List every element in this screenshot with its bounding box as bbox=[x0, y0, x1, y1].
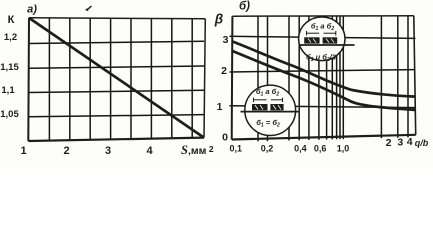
svg-text:0,1: 0,1 bbox=[229, 144, 242, 154]
lower inset hatched plate section left (thickness б1) bbox=[252, 104, 268, 110]
lower inset dimension line right segment bbox=[271, 99, 283, 101]
hatch stroke bbox=[255, 105, 258, 110]
svg-text:1,0: 1,0 bbox=[337, 144, 350, 154]
left plot horizontal grid line K=1,1 bbox=[29, 90, 204, 92]
right plot vertical grid line q/b=0,5 bbox=[308, 16, 310, 140]
svg-text:3: 3 bbox=[223, 34, 229, 46]
upper inset dimension line right segment bbox=[324, 32, 336, 34]
left plot y axis (left edge) bbox=[27, 18, 30, 141]
svg-text:1: 1 bbox=[20, 145, 26, 157]
left plot data line K(S) bbox=[30, 18, 204, 137]
left plot vertical grid line 3 bbox=[89, 18, 91, 140]
right plot x axis (bottom edge) bbox=[232, 135, 416, 140]
svg-text:а): а) bbox=[27, 4, 37, 16]
upper inset dimension end tick right bbox=[335, 31, 337, 36]
left plot horizontal grid line K=1,2 bbox=[29, 41, 204, 43]
svg-text:3: 3 bbox=[105, 145, 111, 157]
svg-text:2: 2 bbox=[386, 137, 392, 149]
left plot vertical grid line 5 bbox=[130, 18, 132, 139]
svg-text:β: β bbox=[214, 12, 223, 27]
scan smudge mark above left plot bbox=[87, 6, 92, 11]
hatch stroke bbox=[331, 39, 334, 43]
right plot vertical grid line q/b=0,6 bbox=[318, 16, 320, 140]
svg-text:0,2: 0,2 bbox=[261, 144, 274, 154]
right plot horizontal grid line beta=2 bbox=[230, 70, 416, 72]
svg-text:б1 = б2: б1 = б2 bbox=[256, 118, 280, 129]
upper inset hatched plate section right (thickness б2) bbox=[323, 37, 338, 43]
left plot frame right edge bbox=[204, 19, 205, 138]
left plot x axis (bottom edge) bbox=[28, 138, 204, 141]
right plot vertical grid line q/b=3 bbox=[397, 16, 399, 138]
svg-text:0,6: 0,6 bbox=[314, 144, 327, 154]
hatch stroke bbox=[278, 105, 281, 110]
left plot horizontal grid line K=1,05 bbox=[29, 115, 204, 117]
right plot vertical grid line q/b=4 bbox=[407, 16, 409, 138]
hatch stroke bbox=[313, 39, 316, 43]
svg-text:б): б) bbox=[239, 1, 250, 13]
svg-text:3: 3 bbox=[397, 137, 403, 149]
svg-text:1: 1 bbox=[217, 101, 223, 113]
left plot vertical grid line 6 bbox=[150, 19, 152, 139]
right plot vertical grid line q/b=0,85 bbox=[336, 16, 338, 139]
lower inset dimension end tick right bbox=[282, 98, 284, 102]
upper inset base line through circle bbox=[300, 44, 355, 46]
lower inset hatched plate section right (thickness б2) bbox=[270, 104, 283, 110]
right plot lower curve beta(q/b) for equal thickness bbox=[233, 51, 416, 110]
right plot horizontal grid line beta=3 bbox=[230, 36, 416, 38]
right plot y axis (left edge) bbox=[231, 16, 234, 139]
right plot vertical grid line q/b=0,7 bbox=[326, 16, 328, 140]
svg-text:2: 2 bbox=[63, 145, 69, 157]
right plot frame top edge bbox=[232, 15, 413, 17]
left plot vertical grid line 2 bbox=[69, 18, 71, 140]
right plot frame right edge bbox=[414, 16, 416, 135]
svg-text:б1 и б2/3: б1 и б2/3 bbox=[306, 53, 337, 64]
right plot vertical grid line q/b=0,9 bbox=[339, 16, 341, 139]
right plot vertical grid line q/b=0,2 bbox=[267, 16, 269, 141]
hatch stroke bbox=[260, 105, 263, 110]
svg-text:б1 а б2: б1 а б2 bbox=[311, 21, 334, 32]
upper inset dimension line left segment bbox=[307, 32, 320, 34]
hatch stroke bbox=[308, 39, 311, 43]
right plot upper curve beta(q/b) for unequal thickness bbox=[233, 42, 416, 97]
lower inset base line through circle bbox=[241, 111, 300, 113]
left plot vertical grid line 4 bbox=[110, 18, 112, 139]
lower inset callout circle bbox=[245, 85, 296, 135]
svg-text:0,4: 0,4 bbox=[294, 144, 307, 154]
right plot vertical grid line q/b=2 bbox=[380, 16, 382, 138]
svg-text:б1 а б2: б1 а б2 bbox=[256, 87, 279, 98]
right plot vertical grid line q/b=1,0 bbox=[342, 16, 344, 139]
upper inset callout circle bbox=[299, 17, 345, 61]
right plot vertical grid line q/b=0,15 bbox=[257, 16, 259, 141]
left plot vertical grid line 8 bbox=[191, 19, 193, 138]
lower inset dimension line left segment bbox=[254, 99, 267, 101]
left plot horizontal grid line K=1,15 bbox=[29, 66, 204, 68]
svg-text:1,2: 1,2 bbox=[4, 32, 17, 43]
right plot vertical grid line q/b=0,8 bbox=[331, 16, 333, 139]
right plot vertical grid line q/b=0,4 bbox=[298, 16, 300, 140]
upper inset dimension end tick left bbox=[306, 31, 308, 36]
svg-text:q/b: q/b bbox=[415, 138, 429, 148]
svg-text:0: 0 bbox=[222, 132, 228, 144]
left plot vertical grid line 1 bbox=[48, 18, 50, 141]
svg-text:1,05: 1,05 bbox=[0, 109, 19, 120]
right plot vertical grid line q/b=0,3 bbox=[288, 16, 290, 140]
svg-text:1,15: 1,15 bbox=[0, 62, 19, 73]
right plot horizontal grid line beta=1 bbox=[230, 106, 416, 108]
svg-text:4: 4 bbox=[407, 136, 413, 148]
upper inset hatched plate section left (thickness б1) bbox=[304, 37, 319, 43]
left plot frame top edge bbox=[29, 18, 205, 19]
hatch stroke bbox=[326, 39, 329, 43]
hatch stroke bbox=[273, 105, 276, 110]
left plot vertical grid line 7 bbox=[171, 19, 173, 139]
lower inset dimension end tick left bbox=[253, 98, 255, 102]
svg-text:4: 4 bbox=[146, 145, 153, 157]
scan background bbox=[0, 0, 433, 169]
svg-text:К: К bbox=[8, 14, 15, 26]
svg-text:1,1: 1,1 bbox=[1, 85, 15, 96]
svg-text:2: 2 bbox=[221, 65, 227, 77]
